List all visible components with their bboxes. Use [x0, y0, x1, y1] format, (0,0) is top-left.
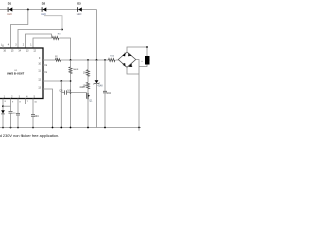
- wire C7 bottom to return column: [139, 65, 147, 67]
- wire bridge minus corner to return column: [127, 67, 139, 74]
- wire H2 from IC pin 12: [43, 80, 71, 82]
- svg-text:d 230V non flicker free applic: d 230V non flicker free application.: [0, 133, 59, 138]
- zener diode ZD1: [96, 60, 98, 80]
- pin numbers right column: [38, 58, 41, 90]
- svg-text:4148: 4148: [97, 85, 103, 87]
- bridge rectifier B1: [118, 52, 135, 67]
- junction rail/Q1 source: [87, 127, 89, 129]
- svg-text:9WS B-UG6T: 9WS B-UG6T: [7, 72, 25, 75]
- junction V1/gate row: [70, 92, 72, 94]
- svg-text:560K: 560K: [73, 69, 79, 71]
- wire R10 to bridge AC input: [116, 59, 119, 62]
- wire Va down to bottom rail: [60, 81, 62, 128]
- capacitor C5: [104, 60, 106, 91]
- wire from IC pin 13 down to bottom rail: [43, 89, 53, 128]
- wire V2 mid: [87, 75, 89, 82]
- pin numbers bottom row 1..5: [4, 96, 36, 98]
- wire tap after D2 down to L2 net: [44, 16, 62, 30]
- wire top rail right drop to H1: [96, 10, 98, 61]
- svg-text:D1: D1: [8, 2, 12, 6]
- svg-text:1M: 1M: [83, 71, 86, 74]
- junction on top rail at pin-15 branch: [27, 9, 29, 11]
- pin 16 top stub: [2, 45, 4, 49]
- capacitor C3 on IC pin 5: [32, 99, 34, 115]
- capacitor C6 in gate row: [61, 92, 64, 94]
- svg-text:104: 104: [107, 92, 112, 95]
- transistor Q1: [87, 88, 93, 128]
- junction H1/V1: [70, 59, 72, 61]
- junction H2/Va: [60, 80, 62, 82]
- resistor R5 on V1: [70, 60, 72, 67]
- wire IC pin 13 net L3: [26, 34, 52, 48]
- junction rail/pin13 wire: [52, 127, 54, 129]
- pin labels right of stubs: [46, 65, 48, 74]
- junction H1/C5 branch: [104, 59, 106, 61]
- svg-text:D3: D3: [77, 2, 81, 6]
- LED D2: [41, 2, 46, 16]
- wire H1 from IC pin 9: [43, 59, 55, 61]
- wire H1 continued: [61, 59, 109, 61]
- junction H1/zener branch: [96, 59, 98, 61]
- capacitor C2 on IC pin 3: [17, 99, 19, 114]
- LED D3: [77, 2, 82, 16]
- svg-text:D2: D2: [42, 2, 46, 6]
- svg-text:104: 104: [35, 115, 40, 118]
- wire stub below return junction: [138, 128, 140, 131]
- junction rail/D4: [2, 127, 4, 129]
- pin 11 right stub: [43, 71, 47, 73]
- junction rail/bridge return: [138, 127, 140, 129]
- junction rail/C2: [17, 127, 19, 129]
- resistor R3: [52, 37, 58, 40]
- IC U1: [0, 48, 43, 99]
- wire LED string top rail: [0, 9, 97, 11]
- resistor R2: [55, 59, 60, 61]
- svg-text:1M: 1M: [55, 58, 58, 60]
- svg-text:LED: LED: [7, 13, 12, 16]
- junction rail/V1: [70, 127, 72, 129]
- wire bottom return rail: [0, 127, 141, 129]
- junction at C7 top corner: [146, 46, 148, 48]
- resistor R6 on V2: [87, 60, 89, 70]
- resistor R7 on V2: [87, 82, 90, 88]
- junction rail/C5: [104, 127, 106, 129]
- junction rail/Va: [60, 127, 62, 129]
- wire L4 right drop to H1: [59, 38, 70, 60]
- junction H1/V2: [87, 59, 89, 61]
- capacitor C7 electrolytic: [145, 56, 150, 65]
- svg-text:LED: LED: [77, 13, 82, 16]
- junction V1/H2: [70, 80, 72, 82]
- capacitor C1 on IC pin 2: [10, 99, 12, 112]
- wire IC pin 12 net L4 left: [33, 38, 52, 48]
- pin 10 right stub: [43, 64, 47, 66]
- diode D4 on IC pin 1: [2, 99, 4, 111]
- junction tap/L2: [61, 29, 63, 31]
- svg-text:C: C: [149, 60, 150, 62]
- junction rail/C1: [10, 127, 12, 129]
- wire IC pin 15 to top rail: [11, 10, 28, 49]
- pin labels above top pins: [8, 44, 33, 46]
- svg-text:4148: 4148: [79, 87, 85, 89]
- pin 4 bottom stub: [25, 99, 27, 105]
- junction rail/C3: [32, 127, 34, 129]
- svg-text:104: 104: [67, 90, 72, 93]
- wire IC pin 14 net L2: [18, 30, 62, 49]
- resistor R10 bridge feed: [109, 59, 115, 62]
- wire bridge plus corner to capacitor C7: [127, 47, 147, 56]
- LED D1: [7, 2, 12, 16]
- wire V1 down to bottom rail: [70, 73, 72, 128]
- wire bridge right corner down to bottom rail: [136, 60, 139, 128]
- pin labels below bottom pins: [5, 101, 29, 103]
- pin numbers top row 16..12: [3, 51, 36, 53]
